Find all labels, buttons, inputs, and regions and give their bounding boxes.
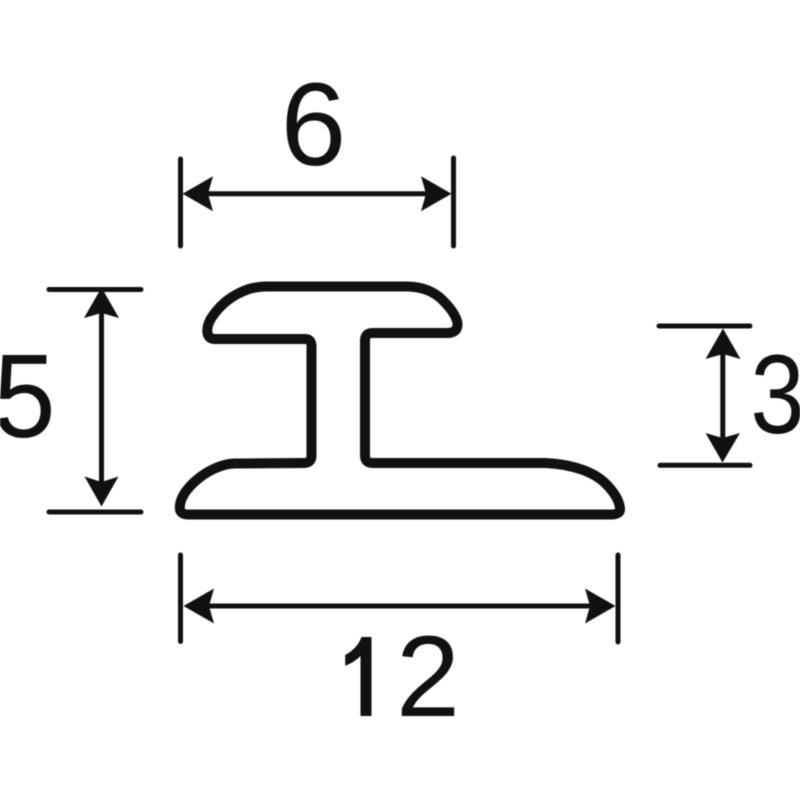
svg-text:6: 6	[281, 59, 347, 191]
svg-text:2: 2	[396, 613, 460, 741]
svg-text:5: 5	[0, 330, 56, 463]
svg-text:3: 3	[750, 333, 800, 458]
